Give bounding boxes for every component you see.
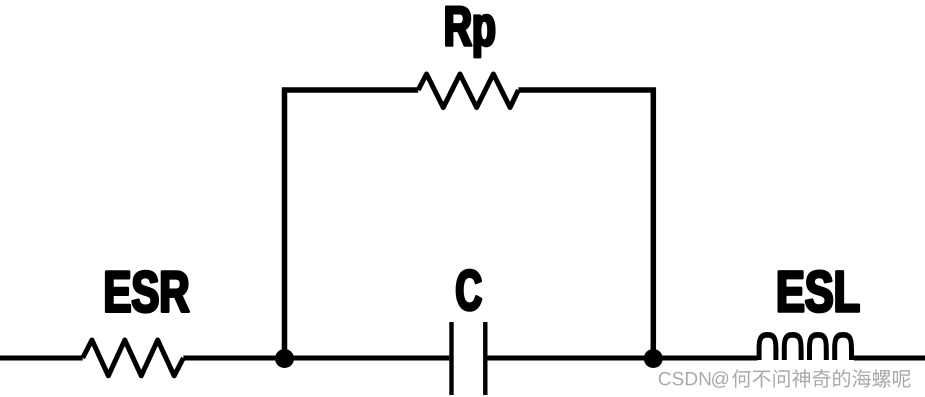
wire left lead — [0, 356, 83, 361]
resistor ESR — [83, 340, 184, 376]
label Rp — [446, 7, 494, 57]
label C — [457, 270, 481, 310]
node left junction — [275, 349, 294, 368]
label ESL — [779, 271, 859, 312]
resistor Rp — [418, 74, 518, 108]
label ESR — [106, 271, 188, 312]
wire Rp to right vertical — [518, 90, 653, 358]
wire Rp parallel branch — [285, 90, 419, 358]
watermark CSDN — [659, 372, 711, 386]
capacitor C plate right — [483, 322, 487, 395]
inductor ESL — [757, 332, 854, 360]
watermark @ — [712, 371, 728, 387]
wire C to ESL — [488, 356, 758, 361]
wire ESR to C — [183, 356, 449, 361]
node right junction — [644, 349, 663, 368]
capacitor C plate left — [449, 322, 453, 395]
watermark CJK 何不问神奇的海螺呢 — [732, 369, 910, 388]
wire right lead — [854, 356, 925, 361]
